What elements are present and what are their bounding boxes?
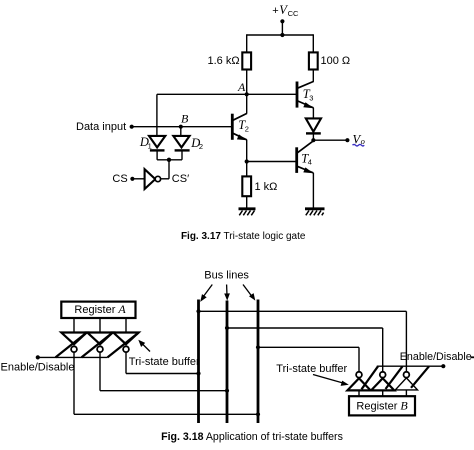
wire buffer3 output to bus 1 [125, 352, 127, 374]
node A dot [245, 92, 249, 96]
wire CS to inverter [132, 178, 144, 180]
svg-text:Bus lines: Bus lines [204, 270, 249, 282]
svg-text:Register B: Register B [356, 399, 408, 413]
junction dot on rail [280, 33, 284, 37]
wire VCC stub [281, 21, 283, 35]
arrow to buffer 3 (left) [138, 340, 150, 352]
Register B box [349, 396, 415, 415]
svg-text:Tri-state buffer: Tri-state buffer [129, 356, 200, 368]
wire enable line (right) [377, 365, 444, 367]
node Vo junction dot [311, 138, 315, 142]
enable diagonal 3 (left) [108, 333, 139, 358]
svg-text:Register A: Register A [74, 302, 126, 316]
arrow to bus line 2 [224, 285, 230, 301]
enable diagonal 2 (left) [82, 333, 113, 358]
label T2 [238, 118, 249, 133]
wire bus3 to right buffer 1 [256, 345, 260, 349]
enable terminal dot (right) [441, 364, 445, 368]
wire buffer2 output to bus 2 [99, 352, 101, 391]
wire rail to R2 [312, 34, 314, 52]
label T4 [301, 151, 312, 166]
VCC terminal dot [280, 19, 284, 23]
wire R1 to node A [246, 70, 248, 95]
CS terminal dot [130, 177, 134, 181]
svg-text:3: 3 [309, 93, 313, 102]
transistor T3 [297, 81, 314, 108]
clipped mark at right edge [471, 356, 474, 358]
bus line 1 [197, 300, 200, 424]
ground (right) [305, 209, 325, 216]
wire T2 emitter down to junction and R3 [246, 140, 248, 177]
Register A box [61, 302, 135, 318]
junction dot diode cathodes [167, 158, 171, 162]
wire diode to Vo node [312, 133, 314, 140]
svg-text:+: + [272, 5, 278, 17]
label Vo (blue, underlined) [353, 133, 365, 147]
svg-text:2: 2 [199, 142, 203, 151]
label D1 [139, 135, 152, 150]
wire D2 cathode stub [181, 150, 183, 159]
transistor T4 [297, 141, 314, 174]
arrow to bus line 3 [243, 285, 255, 301]
diode D2 [173, 136, 189, 151]
enable diagonal 3 (right) [411, 366, 429, 388]
svg-text:2: 2 [245, 124, 249, 133]
svg-text:1 kΩ: 1 kΩ [255, 181, 278, 193]
wire CS' horizontal to inverter bubble [160, 178, 169, 180]
resistor R3 1k box [242, 176, 251, 196]
wire joining diode cathodes [157, 159, 182, 161]
wire T4 emitter down [312, 173, 314, 208]
junction dot on bus 2 [225, 389, 229, 393]
wire R3 to ground [246, 196, 248, 208]
wire VCC rail [247, 34, 314, 36]
svg-text:100 Ω: 100 Ω [321, 55, 351, 67]
tri-state buffer 1 (right bank) [347, 372, 370, 391]
transistor T2 [232, 113, 247, 140]
diode D3 (output diode) [306, 118, 321, 133]
wire T3 emitter to diode [312, 108, 314, 119]
svg-text:B: B [181, 112, 189, 126]
label T3 [303, 87, 314, 102]
svg-text:CC: CC [288, 9, 299, 18]
bus line 2 [226, 301, 229, 424]
wire T4 base [247, 161, 297, 163]
wire node A to T2 collector [246, 94, 248, 113]
wire data input to T2 base [132, 126, 232, 128]
resistor R2 100ohm box [309, 52, 318, 69]
svg-text:1.6 kΩ: 1.6 kΩ [208, 55, 240, 67]
enable terminal dot (left) [36, 355, 40, 359]
enable diagonal 1 (left) [56, 333, 87, 358]
svg-text:CS′: CS′ [172, 173, 189, 185]
inverter U1 (CS) [145, 169, 161, 189]
wire bus1 to right buffer 3 [196, 309, 200, 313]
arrow to right buffer 1 [313, 375, 349, 386]
enable diagonal 2 (right) [386, 366, 403, 389]
svg-text:Fig. 3.17 Tri-state logic gate: Fig. 3.17 Tri-state logic gate [181, 231, 306, 242]
wire rail to R1 [246, 34, 248, 52]
svg-text:Enable/Disable: Enable/Disable [1, 361, 75, 373]
Data input terminal dot [130, 125, 134, 129]
Vo terminal dot [345, 138, 349, 142]
resistor R1 1.6k box [242, 52, 251, 69]
wire right buffer stubs to Register B [358, 390, 360, 396]
wire B to D2 [180, 127, 182, 136]
junction dot T2 emitter / T4 base / R3 [245, 159, 249, 163]
arrow to bus line 1 [200, 285, 212, 302]
wire buffer1 output to bus 3 [73, 352, 75, 414]
wire enable line (left) [38, 356, 108, 358]
tri-state buffer 3 (left bank) [113, 333, 138, 353]
wire D1 cathode stub [156, 150, 158, 159]
bus line 3 [257, 300, 260, 424]
svg-text:Fig. 3.18 Application of tri-s: Fig. 3.18 Application of tri-state buffe… [161, 431, 343, 443]
svg-text:4: 4 [308, 158, 312, 167]
ground (left) [239, 209, 256, 216]
label Register B [356, 399, 408, 413]
label Register A [74, 302, 126, 316]
wire node A horizontal [157, 93, 296, 95]
wire junction down to CS' [168, 160, 170, 179]
wire output to Vo terminal [313, 139, 347, 141]
svg-text:A: A [237, 80, 246, 94]
wire A down to D1 [156, 94, 158, 136]
tri-state buffer 3 (right bank) [395, 372, 417, 390]
wire R2 to T3 collector [312, 70, 314, 82]
power +VCC label [272, 3, 299, 18]
tri-state buffer 2 (right bank) [371, 372, 394, 391]
svg-text:Tri-state buffer: Tri-state buffer [276, 363, 347, 375]
label D2 [190, 136, 203, 151]
svg-text:CS: CS [112, 173, 127, 185]
junction dot on bus 1 [196, 371, 200, 375]
node B dot [179, 125, 183, 129]
wire bus2 to right buffer 2 [225, 326, 229, 330]
wire Register A output stubs [73, 318, 75, 332]
svg-text:Enable/Disable: Enable/Disable [400, 351, 472, 363]
svg-text:Data input: Data input [76, 121, 126, 133]
svg-text:1: 1 [148, 141, 152, 150]
diode D1 [149, 136, 165, 151]
tri-state buffer 1 (left bank) [61, 333, 86, 353]
enable diagonal 1 (right) [362, 366, 379, 389]
junction dot on bus 3 [256, 412, 260, 416]
tri-state buffer 2 (left bank) [87, 333, 112, 353]
